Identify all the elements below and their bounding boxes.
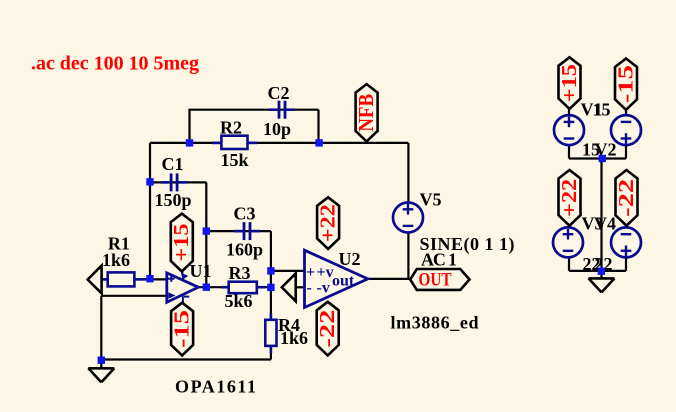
wire: R4 branch vertical (270, 287, 272, 359)
svg-text:+15: +15 (169, 224, 193, 262)
wire: U1 - input horizontal (101, 295, 167, 297)
capacitor C1 (170, 173, 173, 191)
wire: C3 branch down to U2 + node (270, 231, 272, 271)
op-amp U1 - input mark (168, 292, 175, 298)
svg-text:15: 15 (593, 100, 611, 120)
svg-text:U2: U2 (339, 249, 361, 269)
svg-text:+22: +22 (315, 204, 339, 242)
svg-text:C2: C2 (268, 83, 290, 103)
svg-text:15k: 15k (221, 150, 249, 170)
wire: U2 + input (271, 270, 305, 272)
wire: top pair rail (569, 157, 626, 159)
wire: top feedback run (150, 142, 408, 144)
svg-text:R2: R2 (220, 118, 242, 138)
voltage source V1 (554, 115, 584, 145)
wire: U1 output vertical column (205, 182, 207, 287)
junction at C1 tap (146, 178, 153, 185)
wire: V2 top stub (625, 110, 627, 116)
svg-text:-v: -v (317, 280, 330, 297)
svg-text:-15: -15 (613, 65, 637, 103)
op-amp U1 + input mark (168, 278, 175, 280)
wire: R3 run (198, 286, 271, 288)
capacitor C2 (278, 101, 281, 119)
svg-text:+22: +22 (557, 179, 581, 217)
voltage source V4 (611, 227, 641, 257)
svg-text:+15: +15 (557, 64, 581, 102)
wire: V3 bottom stub (568, 256, 570, 271)
svg-text:150p: 150p (155, 190, 192, 210)
wire: C2 top run (188, 109, 318, 111)
svg-text:C3: C3 (234, 204, 256, 224)
wire: R1 run (102, 278, 167, 280)
net flag NFB (356, 84, 378, 141)
svg-text:C1: C1 (162, 154, 184, 174)
wire: U1 - input down to rail (100, 296, 102, 360)
wire: V3 top stub (568, 226, 570, 229)
ground at bottom rail (88, 367, 114, 370)
wire: left ground stem (100, 360, 102, 369)
wire: U2 - input stub (296, 286, 305, 288)
svg-text:out: out (332, 273, 355, 290)
svg-text:lm3886_ed: lm3886_ed (391, 313, 479, 333)
svg-text:OUT: OUT (419, 269, 452, 290)
resistor R4 (270, 314, 273, 321)
junction at C2 left branch (186, 139, 193, 146)
power flag +15 above U1 (171, 214, 193, 272)
wire: middle vertical to bottom pair (600, 159, 602, 272)
op-amp U1 V+ pin stub and arrow (181, 272, 183, 275)
wire: V2 bottom stub (625, 144, 627, 159)
power flag +22 above U2 (317, 197, 339, 249)
svg-text:.ac dec 100 10 5meg: .ac dec 100 10 5meg (31, 53, 199, 75)
svg-text:+: + (306, 264, 315, 281)
svg-text:1k6: 1k6 (102, 250, 130, 270)
wire: U2 output (368, 278, 410, 280)
wire: C1 branch horizontal (150, 181, 206, 183)
power flag +15 right column (559, 57, 581, 109)
wire: V5 top lead (407, 143, 409, 204)
svg-text:OPA1611: OPA1611 (175, 377, 256, 397)
svg-text:-22: -22 (315, 310, 339, 348)
junction at bottom rail ground (98, 357, 105, 364)
resistor R2 (212, 142, 222, 145)
voltage source V5 (393, 203, 423, 233)
svg-text:5k6: 5k6 (225, 291, 253, 311)
ground right column (589, 277, 615, 280)
resistor R3 (221, 286, 230, 289)
wire: C2 branch down-right (317, 110, 319, 144)
wire: V4 bottom stub (625, 256, 627, 271)
wire: node column between junctions (270, 271, 272, 288)
input ground port at R1 left (88, 266, 102, 294)
power flag -22 right column (616, 170, 638, 226)
wire: C2 branch up-left (188, 110, 190, 144)
wire: V1 top stub (568, 109, 570, 116)
svg-text:R3: R3 (229, 263, 251, 283)
power flag -15 right column (615, 59, 637, 110)
ground port at U2 - input (282, 273, 296, 301)
wire: C3 branch horizontal (206, 230, 271, 232)
op-amp U1 (OPA1611) (167, 273, 199, 302)
wire: V5 bottom lead to OUT (407, 232, 409, 279)
svg-text:10p: 10p (263, 119, 291, 139)
junction at R3/R4 node (267, 284, 274, 291)
svg-text:-: - (307, 280, 312, 297)
svg-text:1k6: 1k6 (280, 328, 308, 348)
junction at U2 + node (267, 267, 274, 274)
svg-text:NFB: NFB (354, 94, 378, 132)
output port flag OUT (410, 269, 469, 290)
wire: bottom return rail (101, 358, 271, 360)
svg-text:-22: -22 (614, 179, 638, 217)
wire: left vertical (feedback column) (149, 143, 151, 279)
junction at C3 tap (203, 227, 210, 234)
voltage source V3 (553, 227, 583, 257)
resistor R1 (103, 278, 109, 281)
power amp U2 (lm3886_ed) (305, 250, 368, 307)
power flag +22 right column (559, 170, 581, 226)
wire: V1 bottom stub (568, 144, 570, 159)
svg-text:160p: 160p (226, 240, 263, 260)
svg-text:U1: U1 (190, 261, 212, 281)
power flag -22 below U2 (317, 302, 339, 356)
svg-text:AC 1: AC 1 (421, 250, 457, 270)
wire: bottom pair rail (569, 270, 626, 272)
svg-text:-15: -15 (169, 310, 193, 348)
junction bottom pair rail (598, 268, 605, 275)
power flag -15 below U1 (171, 303, 193, 356)
svg-text:V4: V4 (594, 214, 616, 234)
junction at C2 right branch (315, 139, 322, 146)
op-amp U1 V- pin stub and mark (182, 296, 184, 303)
wire: V4 top stub (625, 226, 627, 229)
junction at U1 output (203, 284, 210, 291)
wire: right ground stem (600, 271, 602, 278)
junction top pair rail (599, 155, 606, 162)
svg-text:V5: V5 (420, 189, 442, 209)
voltage source V2 (611, 115, 641, 145)
junction at U1 + input node (146, 275, 153, 282)
capacitor C3 (243, 222, 246, 240)
